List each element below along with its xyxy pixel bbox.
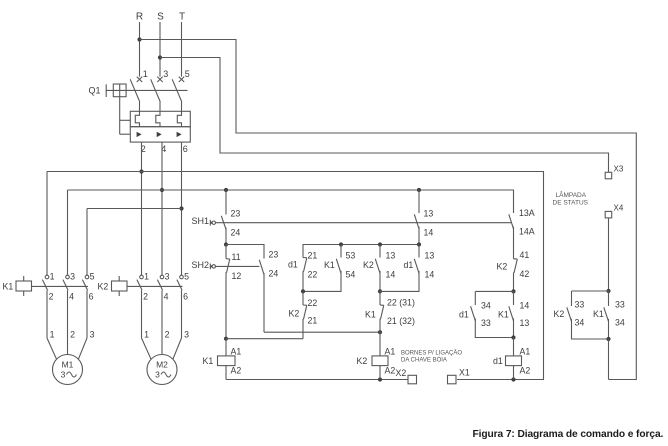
wire K1 pole 4 down [67,290,69,338]
svg-text:Q1: Q1 [89,86,101,96]
wire Q1 terminal 4 down to K2 pole 3 [161,142,163,275]
junction rail L1 / Q1-2 [139,169,143,173]
relay contact d1 21-22 (NC) [303,257,307,259]
wire d1-33 bottom bar [475,318,513,337]
svg-text:K2: K2 [357,356,368,366]
svg-text:34: 34 [575,318,585,328]
wire d1 coil bottom stub [513,366,515,380]
svg-text:K2: K2 [363,260,374,270]
wire K1 pole 2 down [46,290,48,338]
wire sub-rail [303,245,419,258]
svg-text:1: 1 [144,330,149,340]
svg-text:X2: X2 [396,368,407,378]
wire K1 pole 6 down [86,290,88,338]
junction lamp branch top [606,289,610,293]
svg-text:d1: d1 [288,260,298,270]
contact K1 53-54 (NO) [336,259,341,274]
wire d1 coil top stub [513,338,515,356]
wire Q1 terminal 6 down to K2 pole 5 [181,142,183,275]
breaker Q1 thermal overload box [130,111,190,126]
wire d1-34 top [474,291,476,305]
wire bottom rail left segment to X2 [226,379,408,381]
motor lead right K1 [78,338,87,361]
svg-text:SH1: SH1 [192,216,210,226]
svg-text:d1: d1 [459,310,469,320]
pushbutton SH2 actuator [209,264,211,270]
contact K1 22(31)-21(32) (NC) [379,291,381,305]
wire K1-54 bottom joining d1-22 [303,271,341,292]
wire K2-21 down [302,319,304,339]
wire lamp branch top bar [572,290,609,292]
svg-text:23: 23 [231,209,241,219]
svg-text:23: 23 [269,250,279,260]
svg-text:A1: A1 [231,347,242,357]
svg-text:14: 14 [520,301,530,311]
svg-text:A2: A2 [520,366,531,376]
wire lamp branch to bottom [608,339,610,380]
junction sub-rail at d1-13 [417,242,421,246]
terminal X3 [605,172,612,179]
wire SH2 pole1 top [225,245,227,259]
wire SH2 pole2 bottom [263,273,265,332]
junction phase S tap [158,55,162,59]
terminal X4 [605,211,612,218]
junction d1 coil top [511,335,515,339]
svg-text:21: 21 [308,316,318,326]
breaker Q1 linkage horizontal [106,89,187,91]
svg-text:13: 13 [424,209,434,219]
wire X4 down to lamp contacts [608,218,610,291]
svg-text:K1: K1 [203,356,214,366]
coil K2 [372,356,388,366]
junction rail L2 / Q1-4 [160,188,164,192]
svg-text:K1: K1 [365,310,376,320]
svg-text:K1: K1 [324,260,335,270]
breaker Q1 handle box [113,84,126,97]
wire K2 pole 6 down [181,290,183,338]
svg-text:41: 41 [520,250,530,260]
breaker Q1 linkage tap upper [120,119,131,121]
svg-text:24: 24 [269,269,279,279]
motor lead left K1 [47,338,57,361]
coil K1 [218,356,236,366]
svg-text:11: 11 [232,252,241,262]
svg-text:M2: M2 [156,360,168,370]
motor lead right K2 [172,338,181,361]
svg-text:1: 1 [50,330,55,340]
wire K1-21(32) down [379,319,381,333]
motor M2 [147,355,177,385]
breaker Q1 pole blade 1 [130,79,140,102]
wire K1 coil bottom stub [225,366,227,380]
breaker Q1 pole contact X mark 3 [157,77,162,82]
svg-text:1: 1 [144,272,149,282]
svg-text:13A: 13A [519,208,535,218]
svg-text:d1: d1 [493,356,503,366]
junction sub-rail at K2-13 [378,242,382,246]
svg-text:6: 6 [183,292,188,302]
breaker Q1 pole blade 3 [151,79,161,102]
wire K2-21 to K1 coil node [226,338,303,340]
svg-text:X4: X4 [614,204,624,213]
wire rail L1 drop to K1 pole 1 [46,172,48,276]
terminal X1 [448,375,457,384]
svg-text:S: S [157,12,164,23]
svg-text:SH2: SH2 [192,260,210,270]
svg-text:22: 22 [308,298,318,308]
contactor K1 pole blade 5 [82,280,87,291]
svg-text:1: 1 [143,69,148,79]
contactor K1 pole terminal 5 [85,275,89,279]
contact K2 33-34 lamp (NO) [567,307,572,321]
junction sub-rail at K1-53 [339,242,343,246]
svg-text:5: 5 [184,272,189,282]
svg-text:A2: A2 [385,366,396,376]
pushbutton SH2 linkage [215,265,259,267]
contactor K2 linkage [127,285,183,287]
wire K2-13 top [379,245,381,258]
svg-text:BORNES P/ LIGAÇÃO: BORNES P/ LIGAÇÃO [401,350,462,357]
junction SH1 tap on rail L2 [224,188,228,192]
svg-text:DA CHAVE BÓIA: DA CHAVE BÓIA [401,357,447,364]
svg-text:3: 3 [155,370,160,380]
wire K2-14 down [379,271,381,292]
wire SH1 bottom [225,228,227,245]
svg-text:14A: 14A [519,227,535,237]
svg-text:3: 3 [163,69,168,79]
contact K2 13-14 (NO) [375,259,380,274]
svg-text:33: 33 [575,300,585,310]
svg-text:X1: X1 [459,368,470,378]
contactor K1 pole terminal 3 [66,275,70,279]
svg-text:21: 21 [308,251,318,261]
svg-text:3: 3 [165,272,170,282]
pushbutton SH1 contact 23-24 (NO) [221,216,226,230]
svg-text:K1: K1 [498,310,509,320]
svg-text:21 (32): 21 (32) [387,316,415,326]
junction node below SH1 [224,242,228,246]
contact K1 14-13 (NO) [509,306,514,321]
svg-text:2: 2 [49,292,54,302]
svg-text:33: 33 [615,300,625,310]
breaker Q1 linkage vertical [119,97,121,135]
pushbutton SH2 contact 23-24 (NO) [259,260,264,275]
wire rail L3 drop to K1 pole 5 [86,209,88,276]
wire rail L1 (y=171.5) with right riser to bottom rail [47,172,544,380]
wire K1-33 top [608,291,610,306]
junction K2-14/d1-14 node [378,289,382,293]
wire K2 pole 4 down [161,290,163,338]
wire K1-34 down [608,319,610,339]
contactor K2 pole terminal 3 [160,275,164,279]
svg-text:M1: M1 [62,360,74,370]
svg-text:24: 24 [231,228,241,238]
contactor K1 pole blade 3 [63,280,68,291]
contact d1 13-14 (NO) [414,259,419,274]
wire phase S drop to Q1 pole 3 [159,22,161,77]
motor lead mid K1 [67,338,69,357]
svg-text:3: 3 [61,370,66,380]
wire d1-22 down [302,271,304,291]
breaker Q1 pole stub 3 [159,102,161,111]
wire rail L3 (y=208.5) [87,208,182,210]
wire SH1 top [225,190,227,215]
wire K2-42 down [513,273,515,292]
wire node to SH2 pole 23 [226,245,264,259]
junction lamp branch bottom [606,337,610,341]
breaker Q1 thermal element pole 5 [177,111,181,126]
svg-text:K1: K1 [593,309,604,319]
motor lead left K2 [142,338,152,361]
pushbutton SH1 actuator [209,220,211,226]
breaker Q1 release arrow [157,132,162,137]
breaker Q1 pole contact X mark 5 [179,77,184,82]
contactor K1 pole terminal 1 [45,275,49,279]
svg-text:2: 2 [70,330,75,340]
wire d1-13 top [418,245,420,258]
breaker Q1 release arrow [177,132,182,137]
contact 13A-14A (NO) [509,214,514,229]
svg-text:3: 3 [70,272,75,282]
contact K2 41-42 (NC) [514,258,518,260]
svg-text:K1: K1 [3,282,14,292]
contactor K2 pole blade 1 [137,280,142,291]
svg-text:d1: d1 [404,260,414,270]
svg-text:33: 33 [481,318,491,328]
wire phase S to terminal X3 [160,58,609,173]
breaker Q1 pole contact X mark 1 [137,77,142,82]
breaker Q1 thermal element pole 3 [156,111,160,126]
wire contact13 bottom to sub-rail [418,227,420,245]
terminal X2 [408,375,417,384]
svg-text:T: T [179,12,185,23]
junction 13-14 tap on rail L2 [417,188,421,192]
svg-text:1: 1 [50,272,55,282]
svg-text:42: 42 [520,269,530,279]
junction seal-in node [301,289,305,293]
wire SH2 pole1 bottom to K1 coil node [225,272,227,339]
coil d1 [506,356,522,366]
wire Q1 terminal 2 down to K2 pole 1 [141,142,143,275]
svg-text:54: 54 [346,270,356,280]
svg-text:DE STATUS: DE STATUS [553,200,589,207]
wire SH2-24 to K2 coil node [264,331,380,333]
svg-text:34: 34 [481,301,491,311]
contactor K1 operator [16,281,32,291]
svg-text:X3: X3 [614,165,624,174]
svg-text:12: 12 [232,271,242,281]
pushbutton SH2 contact 11-12 (NC) [226,258,230,260]
junction K2 coil A2 on bottom rail [378,377,382,381]
svg-text:A2: A2 [231,366,242,376]
contactor K2 pole terminal 1 [140,275,144,279]
contact 13-14 (NO, rail L2) [414,214,419,229]
wire contact13 top [418,190,420,213]
wire phase R to lamp circuit right riser [140,40,637,380]
junction rail L3 / Q1-6 [179,206,183,210]
svg-text:2: 2 [165,330,170,340]
wire K2 pole 2 down [141,290,143,338]
breaker Q1 linkage tap lower [120,133,131,135]
svg-text:14: 14 [425,270,435,280]
svg-text:A1: A1 [520,347,531,357]
svg-text:5: 5 [90,272,95,282]
contact d1 34-33 (NO) [471,306,476,321]
contactor K2 pole blade 3 [157,280,162,291]
contact K1 33-34 lamp (NO) [604,307,609,321]
svg-text:13: 13 [520,318,530,328]
breaker Q1 release box [130,127,190,142]
wire 14A down to K2-41 [513,227,515,259]
svg-text:22 (31): 22 (31) [387,298,415,308]
svg-text:4: 4 [164,292,169,302]
svg-text:53: 53 [346,251,356,261]
breaker Q1 handle bar [105,84,107,97]
junction phase R tap [137,37,141,41]
svg-text:A1: A1 [385,347,396,357]
motor M1 [53,355,83,385]
wire phase R drop to Q1 pole 1 [139,22,141,77]
svg-text:22: 22 [308,270,318,280]
svg-text:2: 2 [143,292,148,302]
wire phase T drop to Q1 pole 5 [181,22,183,77]
svg-text:14: 14 [386,270,396,280]
wire parallel branch top bar [475,290,513,292]
svg-text:K2: K2 [497,262,508,272]
contactor K2 pole terminal 5 [180,275,184,279]
contactor K1 pole blade 1 [42,280,47,291]
svg-text:6: 6 [89,292,94,302]
contactor K2 pole blade 5 [177,280,182,291]
contactor K2 operator [112,281,128,291]
wire K2-34 bottom bar [572,319,609,339]
wire K1-53 top [340,245,342,258]
svg-text:4: 4 [69,292,74,302]
wire rail L2 drop to K1 pole 3 [67,190,69,275]
wire K2-33 top [571,291,573,306]
svg-text:14: 14 [424,228,434,238]
breaker Q1 pole blade 5 [172,79,182,102]
contactor K1 linkage [32,285,89,287]
svg-text:3: 3 [90,330,95,340]
svg-text:13: 13 [425,251,435,261]
wire K1-14 top [513,291,515,305]
wire K2 coil bottom stub [379,366,381,380]
svg-text:LÂMPADA: LÂMPADA [556,190,587,199]
wire K1-13 down [513,318,515,337]
junction K2 coil node [378,330,382,334]
svg-text:13: 13 [386,251,396,261]
breaker Q1 thermal element pole 1 [135,111,139,126]
svg-text:K2: K2 [554,309,565,319]
junction d1 coil A2 on bottom rail [511,377,515,381]
svg-text:5: 5 [185,69,190,79]
svg-text:6: 6 [183,144,188,154]
svg-text:3: 3 [184,330,189,340]
junction K1 coil node [224,337,228,341]
motor lead mid K2 [161,338,163,357]
wire K1 coil top stub [225,339,227,356]
wire d1-14 bottom joining node [380,271,419,292]
breaker Q1 pole stub 5 [181,102,183,111]
wire K2 coil top stub [379,332,381,356]
wire rail L2 (y=190) ending at contact 13A [68,190,514,213]
svg-text:Figura 7: Diagrama de comando: Figura 7: Diagrama de comando e força. [473,429,664,440]
wire SH1 cross wire to contact 13A [215,222,511,224]
junction d1 branch top [511,289,515,293]
svg-text:34: 34 [615,318,625,328]
contact K2 22-21 (NC) [302,291,304,305]
svg-text:K2: K2 [98,282,109,292]
svg-text:R: R [136,12,143,23]
svg-text:K2: K2 [289,309,300,319]
breaker Q1 release arrow [137,132,142,137]
breaker Q1 pole stub 1 [139,102,141,111]
